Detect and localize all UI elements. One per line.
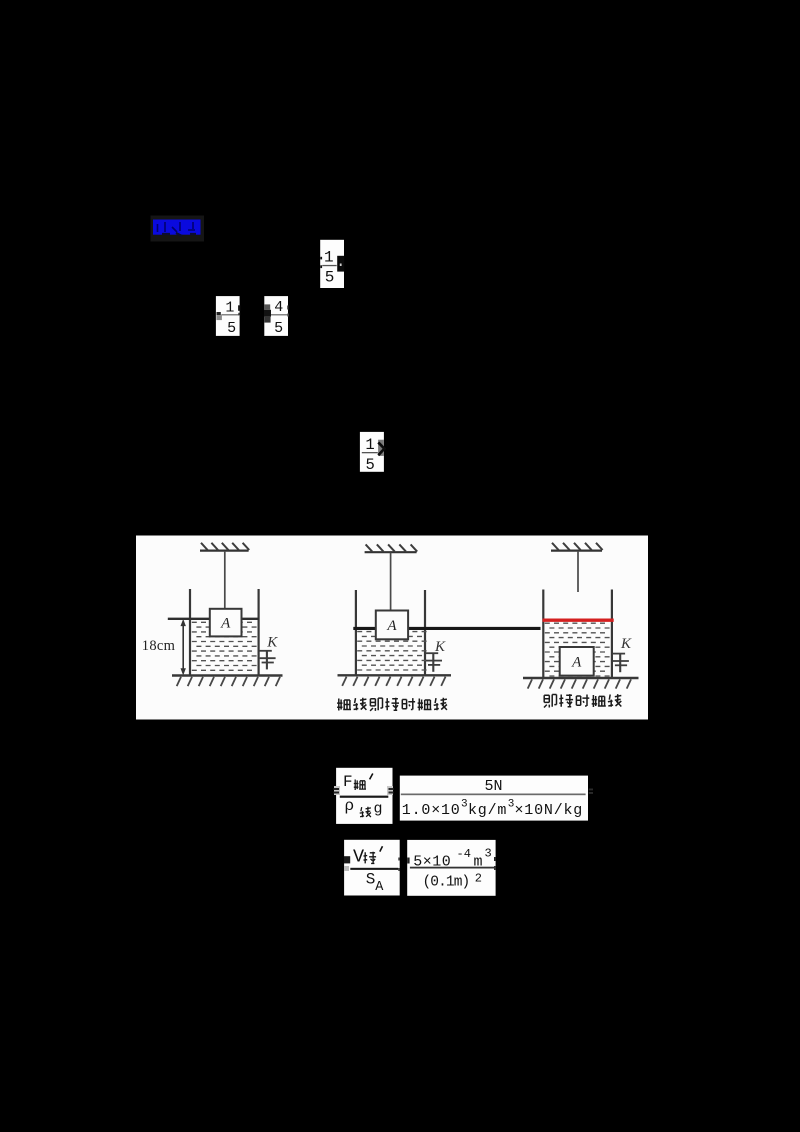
- formula F_buoy/(rho_water g): [334, 768, 394, 824]
- 18cm dimension arrow: [181, 619, 186, 676]
- ground 3: [523, 678, 639, 689]
- svg-text:3: 3: [508, 799, 515, 811]
- container 2 walls: [355, 590, 357, 675]
- string 1: [224, 551, 226, 609]
- svg-text:A: A: [386, 618, 397, 634]
- block A (floating, setup 1): [210, 609, 242, 637]
- svg-text:-4: -4: [457, 847, 471, 861]
- water 3: [545, 623, 610, 676]
- formula 5N / (1.0x10^3 kg/m^3 x 10N/kg): [400, 776, 593, 821]
- svg-text:5: 5: [366, 456, 375, 474]
- svg-text:1: 1: [225, 299, 234, 316]
- block A (sunk, setup 3): [560, 647, 594, 676]
- ground 1: [172, 676, 283, 687]
- caption: string about to break: [337, 698, 447, 711]
- container 3 walls: [542, 590, 544, 678]
- svg-text:A: A: [571, 654, 582, 670]
- faucet valve 3: [613, 654, 629, 673]
- svg-text:kg/m: kg/m: [468, 802, 507, 819]
- svg-text:V: V: [353, 847, 364, 868]
- caption: after sinking stable: [544, 694, 621, 707]
- svg-text:3: 3: [461, 799, 468, 811]
- water surface 1: [168, 618, 259, 620]
- svg-text:18cm: 18cm: [142, 638, 176, 654]
- svg-text:5: 5: [227, 320, 236, 337]
- faucet valve 1: [259, 651, 275, 670]
- blue highlight marker: [151, 216, 205, 242]
- svg-text:1.0×10: 1.0×10: [402, 802, 461, 819]
- svg-text:K: K: [620, 636, 632, 652]
- svg-text:1: 1: [365, 436, 374, 454]
- water 2: [357, 632, 426, 670]
- svg-text:g: g: [374, 801, 383, 818]
- string 2: [390, 553, 392, 611]
- svg-text:A: A: [220, 616, 231, 632]
- figure panel background: [136, 536, 648, 720]
- svg-text:×10N/kg: ×10N/kg: [515, 802, 584, 819]
- svg-text:5: 5: [274, 320, 283, 337]
- red water level line: [543, 619, 614, 622]
- water 1: [192, 622, 257, 670]
- svg-text:ρ: ρ: [345, 797, 355, 815]
- fraction 1/5 box A: [320, 240, 344, 288]
- ceiling hatch: [365, 544, 418, 552]
- ceiling hatch: [200, 543, 249, 551]
- container 1 walls: [189, 589, 191, 676]
- formula 5x10^-4 m^3 / (0.1m)^2: [407, 840, 496, 896]
- faucet valve 2: [426, 653, 442, 672]
- formula V_disp / S_A: [344, 840, 400, 896]
- svg-text:F: F: [343, 773, 353, 791]
- svg-text:1: 1: [324, 249, 334, 267]
- ceiling hatch: [551, 543, 603, 551]
- fraction 4/5 box C: [264, 296, 289, 337]
- block A (at surface, setup 2): [376, 611, 408, 640]
- svg-text:(0.1m): (0.1m): [423, 875, 470, 891]
- ground 2: [338, 675, 452, 686]
- fraction 1/5 box D with greater-than: [360, 432, 385, 474]
- svg-text:K: K: [266, 635, 278, 651]
- svg-text:3: 3: [485, 847, 492, 861]
- svg-text:S: S: [366, 871, 376, 889]
- svg-text:2: 2: [475, 872, 482, 886]
- string 3: [577, 551, 579, 592]
- svg-text:4: 4: [274, 299, 283, 316]
- svg-text:5N: 5N: [484, 778, 502, 795]
- svg-text:A: A: [375, 880, 384, 895]
- svg-text:5: 5: [325, 268, 335, 286]
- fraction 1/5 box B: [216, 296, 240, 337]
- level line (thick, to third container): [353, 627, 540, 630]
